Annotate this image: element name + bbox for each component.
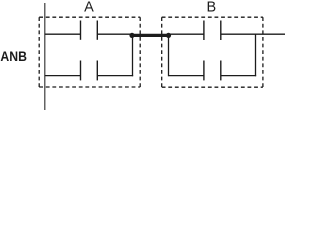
svg-text:A: A <box>84 0 94 15</box>
svg-text:B: B <box>206 0 216 15</box>
svg-text:ANB: ANB <box>0 48 27 64</box>
